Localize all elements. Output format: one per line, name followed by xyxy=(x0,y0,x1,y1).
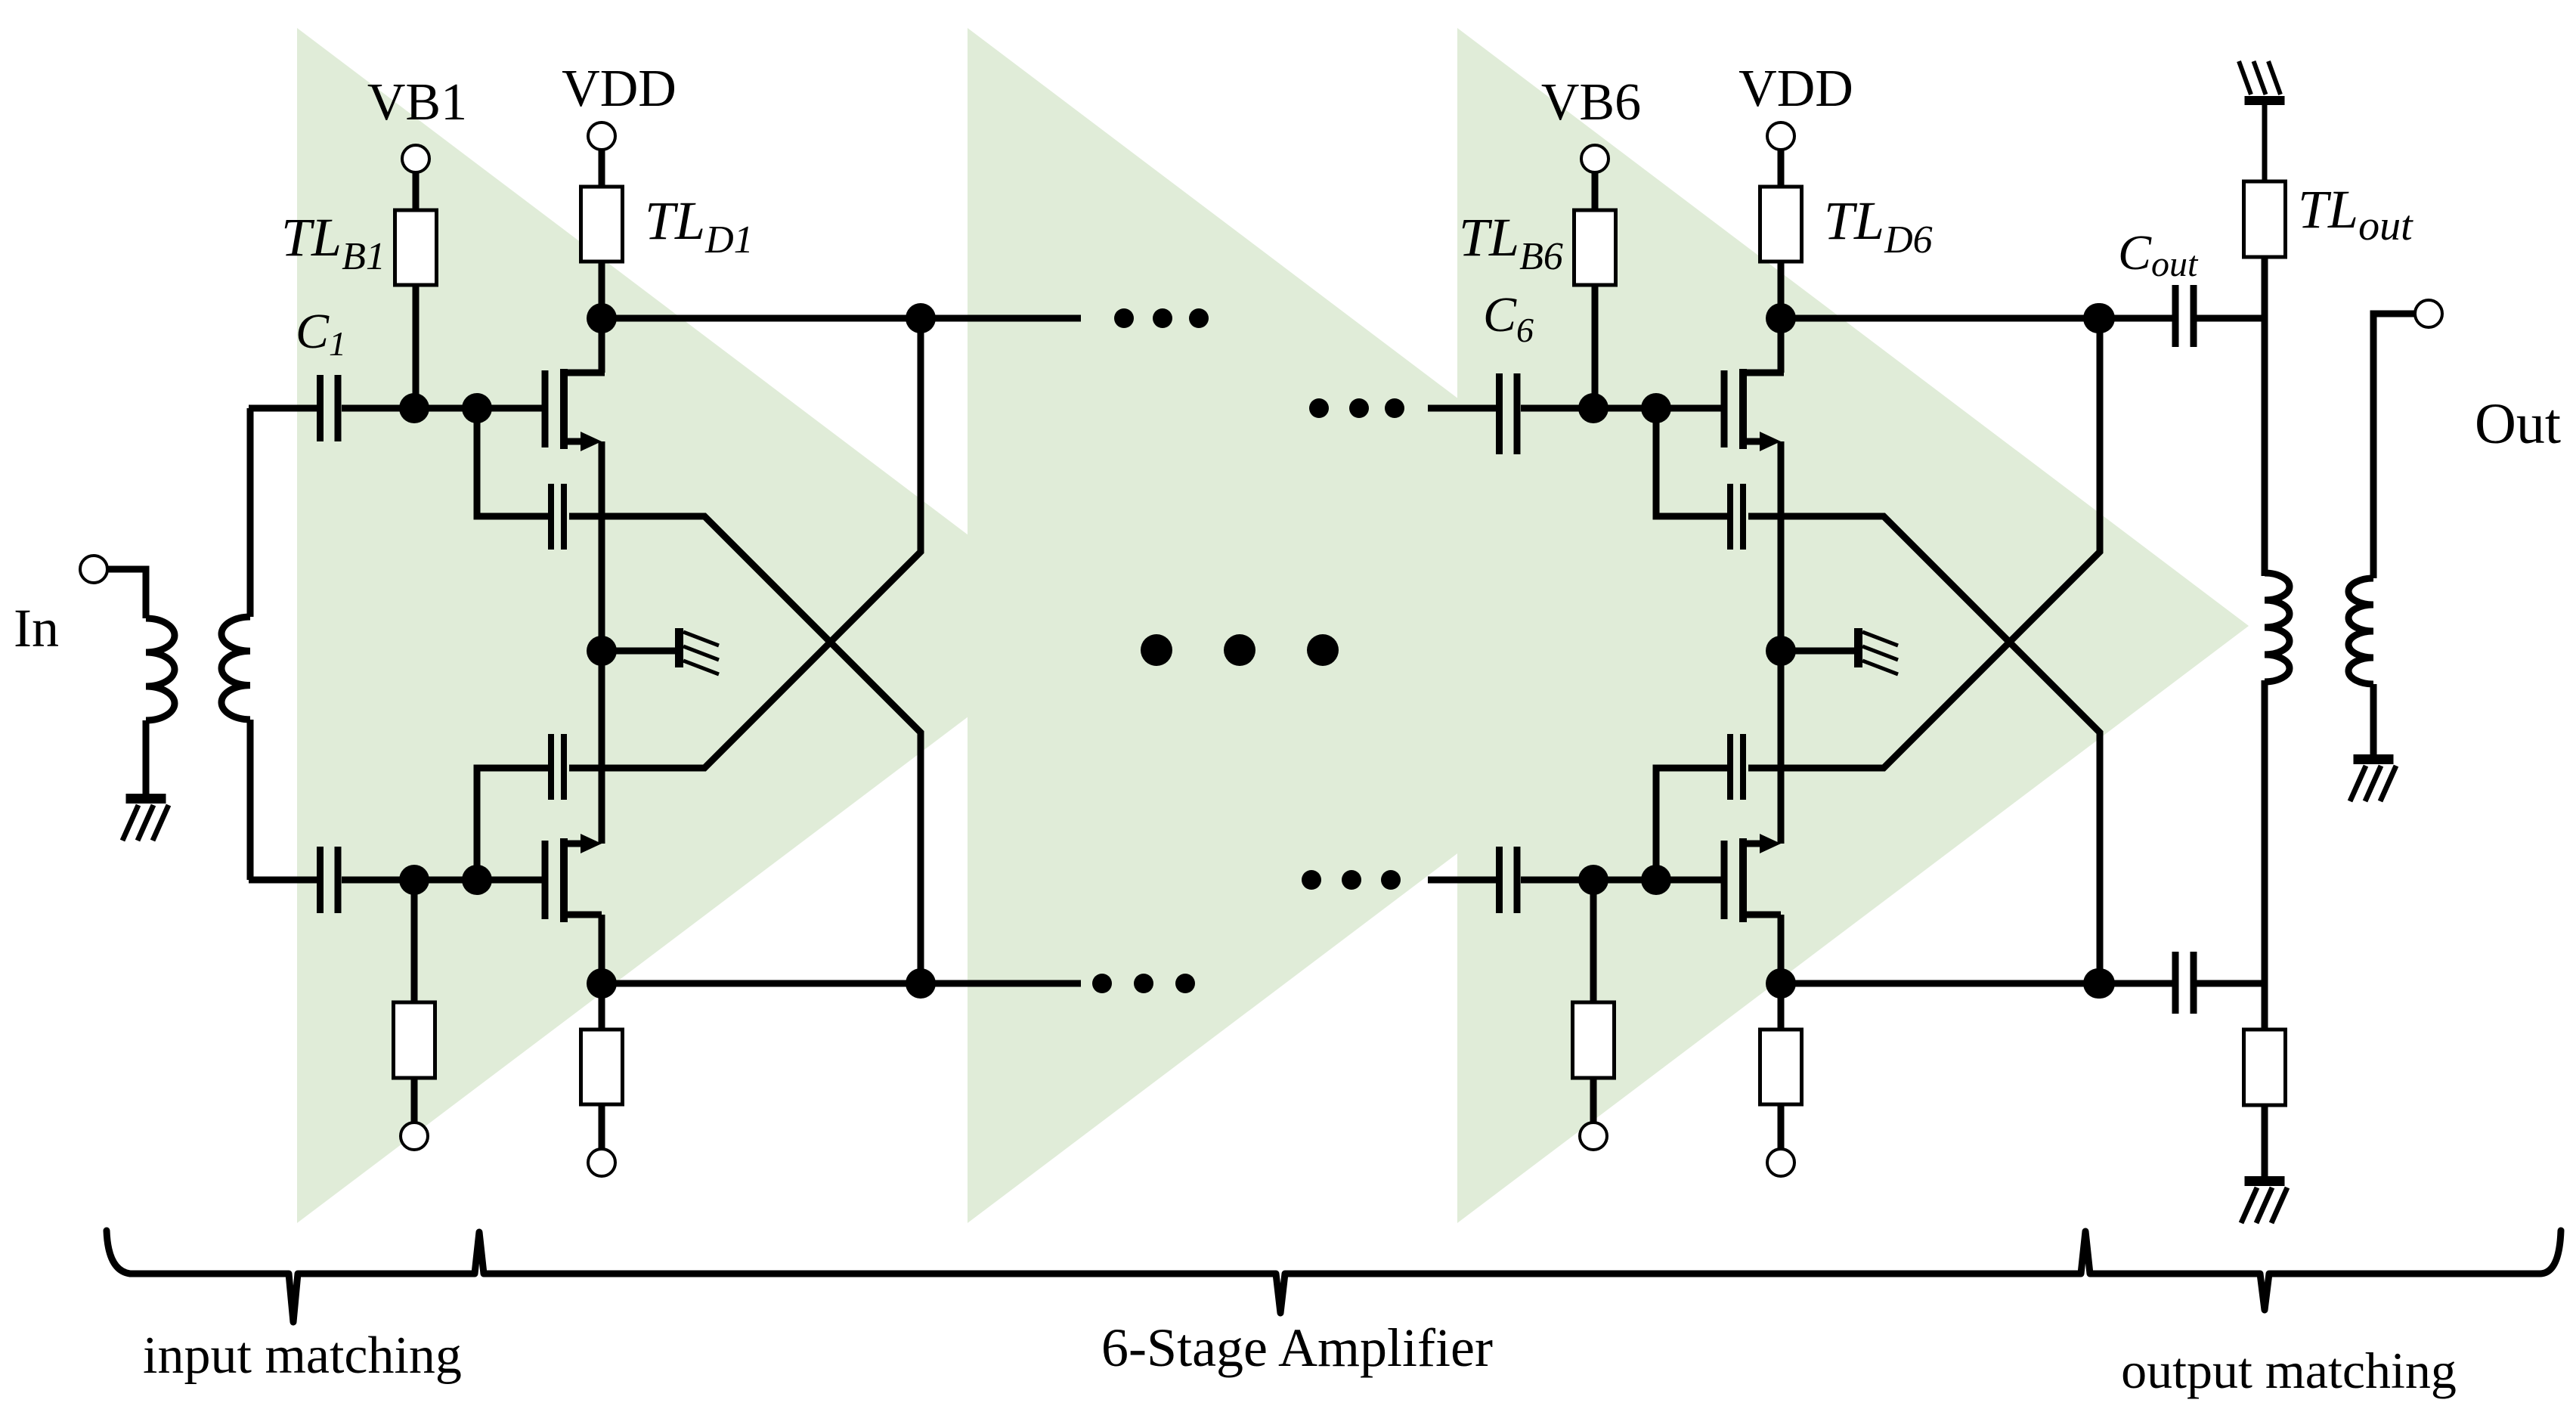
svg-text:VB1: VB1 xyxy=(367,73,467,132)
svg-text:input matching: input matching xyxy=(143,1327,462,1385)
svg-text:6-Stage Amplifier: 6-Stage Amplifier xyxy=(1101,1318,1493,1378)
svg-text:VDD: VDD xyxy=(562,60,677,118)
svg-text:VDD: VDD xyxy=(1738,60,1853,118)
svg-text:In: In xyxy=(14,598,59,658)
svg-text:Out: Out xyxy=(2475,392,2561,456)
svg-text:output matching: output matching xyxy=(2121,1342,2457,1399)
svg-text:VB6: VB6 xyxy=(1541,73,1641,132)
